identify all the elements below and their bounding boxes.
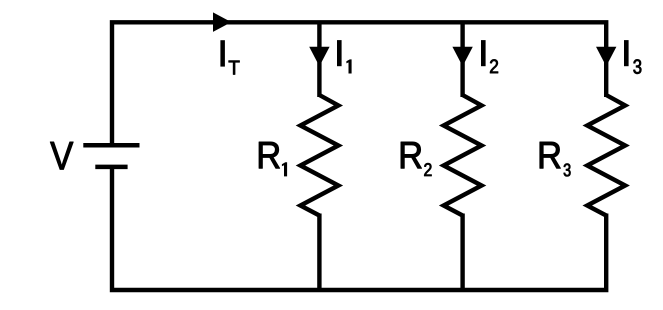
label I3 - 3 bbox=[633, 59, 641, 73]
label R3 - R bbox=[540, 142, 561, 168]
resistor R3 bbox=[587, 95, 625, 216]
arrow I3 on branch 3 bbox=[596, 47, 616, 66]
label IT - I bbox=[220, 40, 224, 66]
battery V bottom plate bbox=[95, 165, 127, 170]
label R2 - 2 bbox=[424, 163, 431, 176]
label R1 - 1 bbox=[282, 162, 287, 176]
wire top loop: left wire up, top wire, right side down to R3 bbox=[112, 22, 606, 145]
wire branch 2 top bbox=[460, 22, 464, 97]
resistor R1 bbox=[300, 95, 338, 216]
label R1 - R bbox=[259, 142, 280, 168]
label V bbox=[50, 142, 73, 169]
wire bottom loop: left wire down, bottom wire, right side up to R3 bottom bbox=[112, 167, 606, 290]
arrow I2 on branch 2 bbox=[452, 47, 472, 66]
resistor R2 bbox=[444, 95, 482, 216]
wire branch 2 bottom bbox=[460, 214, 464, 291]
label I1 - 1 bbox=[346, 59, 351, 73]
label I2 - I bbox=[481, 40, 486, 66]
wire branch 1 top bbox=[317, 22, 321, 97]
battery V top plate bbox=[83, 143, 139, 148]
arrow I1 on branch 1 bbox=[309, 47, 329, 66]
label IT - T bbox=[229, 61, 240, 75]
label I1 - I bbox=[337, 40, 342, 66]
label R2 - R bbox=[401, 142, 422, 168]
arrow IT on top wire bbox=[213, 12, 231, 32]
wire branch 1 bottom bbox=[317, 214, 321, 291]
label I2 - 2 bbox=[490, 59, 498, 73]
label R3 - 3 bbox=[564, 163, 571, 176]
label I3 - I bbox=[624, 40, 629, 66]
